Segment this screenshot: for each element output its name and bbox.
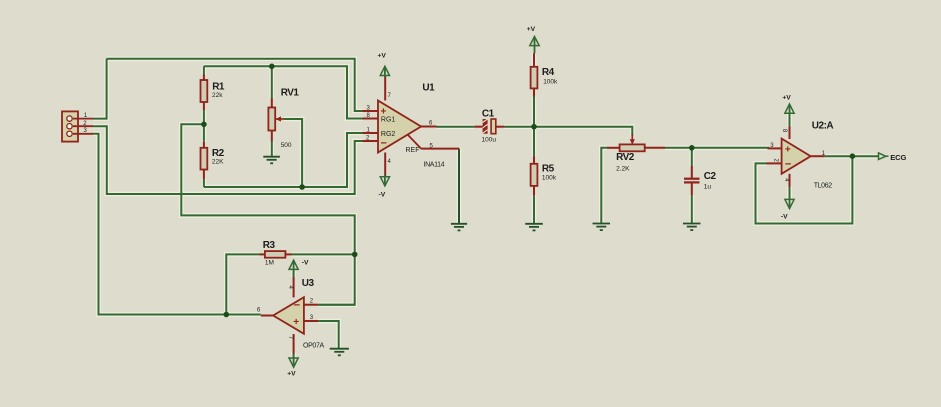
wire node A to left bbox=[181, 124, 354, 304]
svg-text:ECG: ECG bbox=[890, 153, 906, 162]
wire R2 top bbox=[203, 124, 205, 142]
wire R3 left to U3 output bbox=[226, 254, 259, 314]
wire R2 bottom bbox=[202, 179, 207, 188]
wire R3 right to U3 pin2 node bbox=[292, 252, 355, 257]
ground U3 pin3 bbox=[330, 349, 349, 356]
node A R1-R2 junction bbox=[201, 122, 207, 128]
wire RV1 wiper to bottom rail bbox=[284, 119, 302, 187]
resistor R4 bbox=[531, 67, 558, 97]
wire U3 pin7 to +V bbox=[293, 352, 295, 357]
terminal ECG bbox=[879, 153, 907, 162]
node RV2/C2 bbox=[689, 145, 695, 151]
resistor R2 bbox=[201, 142, 225, 179]
op-amp U2:A TL062 bbox=[767, 121, 834, 190]
svg-text:1u: 1u bbox=[704, 184, 712, 191]
wire connector pin3 to U3 output bbox=[93, 134, 261, 315]
power -V U1 bbox=[379, 175, 390, 199]
wire rail R1/RV1 to U1 pin8 bbox=[204, 66, 363, 118]
svg-text:OP07A: OP07A bbox=[303, 343, 324, 350]
power +V R4 bbox=[527, 26, 540, 54]
wire R4 top supply bbox=[533, 53, 535, 67]
wire connector pin2 to U1 pin2 bbox=[93, 126, 363, 194]
wire U1 output to C1 bbox=[437, 124, 475, 129]
power +V U2 bbox=[782, 95, 794, 116]
node R3/U3 pin2 bbox=[352, 252, 358, 258]
wire R4 top supply bbox=[532, 53, 537, 67]
potentiometer RV1 bbox=[268, 88, 299, 149]
wire R2 bottom bbox=[203, 179, 205, 188]
wire U2 pin8 to +V bbox=[789, 113, 791, 126]
svg-text:100u: 100u bbox=[482, 136, 497, 143]
wire RV1 bottom to ground bbox=[269, 141, 274, 157]
svg-text:RG2: RG2 bbox=[381, 131, 396, 138]
ground RV1 bbox=[263, 157, 280, 164]
svg-text:RV2: RV2 bbox=[616, 152, 635, 163]
power +V U3 (down arrow) bbox=[287, 354, 298, 378]
svg-text:100k: 100k bbox=[543, 79, 558, 86]
wire RV1 wiper to bottom rail bbox=[284, 119, 302, 187]
wire R2 top bbox=[202, 124, 207, 142]
ground R5 bbox=[525, 224, 543, 231]
wire REF to ground bbox=[458, 149, 460, 224]
svg-text:C2: C2 bbox=[704, 171, 717, 182]
wire R1 top bbox=[202, 66, 207, 74]
ground REF bbox=[451, 224, 467, 231]
wire U2 output to ECG bbox=[825, 154, 879, 159]
svg-text:-V: -V bbox=[302, 260, 309, 267]
node RV1 wiper / bottom rail bbox=[299, 184, 305, 190]
op-amp U1 INA114 bbox=[363, 76, 460, 177]
wire RV1 top bbox=[271, 66, 273, 98]
wire U2 pin4 to -V bbox=[787, 186, 792, 200]
svg-text:R4: R4 bbox=[542, 67, 555, 78]
resistor R5 bbox=[531, 156, 557, 195]
svg-text:R5: R5 bbox=[542, 163, 555, 174]
power -V U3 (up arrow) bbox=[289, 260, 309, 278]
wire top rail to U1 pin3 bbox=[107, 59, 363, 111]
wire R5 bottom to ground bbox=[533, 195, 535, 223]
wire R5 bottom to ground bbox=[532, 195, 537, 223]
svg-text:+: + bbox=[293, 317, 299, 328]
svg-text:RG1: RG1 bbox=[381, 117, 396, 124]
svg-text:U2:A: U2:A bbox=[812, 121, 834, 132]
wire RV1 top bbox=[269, 66, 274, 98]
svg-text:22K: 22K bbox=[212, 159, 224, 166]
wire RV2 left to ground bbox=[601, 148, 607, 224]
wire connector pin3 to U3 output bbox=[93, 134, 261, 315]
wire RV2 right to U2 pin3 bbox=[665, 146, 769, 151]
wire R1 top bbox=[203, 66, 205, 74]
power -V U2 bbox=[781, 197, 794, 220]
wire RV1 bottom to ground bbox=[271, 141, 273, 157]
wire U3 pin2 from node bbox=[318, 304, 355, 306]
svg-text:+V: +V bbox=[782, 95, 791, 102]
node C1/R4/R5 bbox=[531, 124, 537, 130]
wire connector pin1 to top rail bbox=[93, 59, 107, 119]
wire C2 top bbox=[691, 148, 693, 166]
ground RV2 bbox=[593, 224, 611, 231]
wire U3 pin2 from node bbox=[318, 302, 355, 307]
wire U2 output to ECG bbox=[825, 155, 879, 157]
ground C2 bbox=[683, 224, 701, 231]
svg-text:R3: R3 bbox=[263, 240, 276, 251]
wire R1 bottom to node A bbox=[202, 110, 207, 124]
wire C1 to RV2 wiper bbox=[504, 127, 632, 136]
svg-text:R1: R1 bbox=[212, 82, 225, 93]
resistor R1 bbox=[201, 75, 225, 111]
wire C1 to RV2 wiper bbox=[504, 127, 632, 136]
svg-text:+: + bbox=[785, 145, 791, 156]
svg-text:−: − bbox=[785, 158, 791, 170]
wire connector pin1 to top rail bbox=[93, 59, 107, 119]
potentiometer RV2 bbox=[607, 134, 665, 172]
wire bottom rail to U1 pin1 bbox=[204, 133, 363, 187]
wire U3 pin3 to ground bbox=[318, 321, 339, 349]
wire R3 right to U3 pin2 node bbox=[292, 253, 355, 255]
wire REF to ground bbox=[457, 149, 462, 224]
capacitor C2 bbox=[684, 166, 717, 195]
wire U3 pin3 to ground bbox=[318, 321, 339, 349]
wire U1 output to C1 bbox=[437, 126, 475, 128]
wire R3 left to U3 output bbox=[226, 254, 259, 314]
svg-text:TL062: TL062 bbox=[814, 182, 833, 189]
svg-text:RV1: RV1 bbox=[281, 88, 300, 99]
wire RV2 left to ground bbox=[601, 148, 607, 224]
svg-text:−: − bbox=[381, 138, 387, 150]
wire rail R1/RV1 to U1 pin8 bbox=[204, 66, 363, 118]
wire R1 bottom to node A bbox=[203, 110, 205, 124]
capacitor C1 bbox=[474, 109, 504, 144]
wire R5 top bbox=[533, 127, 535, 157]
svg-text:−: − bbox=[294, 300, 300, 312]
svg-text:-V: -V bbox=[781, 214, 788, 221]
resistor R3 bbox=[260, 240, 292, 266]
wire connector pin2 to U1 pin2 bbox=[93, 126, 363, 194]
wire R4 bottom bbox=[533, 97, 535, 127]
wire U2 feedback loop bbox=[756, 156, 853, 223]
svg-text:500: 500 bbox=[281, 142, 292, 149]
svg-text:2.2K: 2.2K bbox=[616, 165, 630, 172]
node U2 output/feedback bbox=[850, 153, 856, 159]
op-amp U3 OP07A bbox=[257, 277, 324, 354]
wire U3 pin4 to -V bbox=[293, 271, 295, 277]
wire R5 top bbox=[532, 127, 537, 157]
wire U2 pin8 to +V bbox=[787, 113, 792, 126]
node RV1 top junction bbox=[269, 64, 275, 70]
svg-text:100k: 100k bbox=[542, 174, 557, 181]
wire U2 feedback loop bbox=[756, 156, 853, 223]
wire top rail to U1 pin3 bbox=[107, 59, 363, 111]
svg-text:1M: 1M bbox=[265, 260, 274, 267]
svg-text:C1: C1 bbox=[482, 109, 495, 120]
wire U3 pin7 to +V bbox=[291, 352, 296, 357]
wire R4 bottom bbox=[532, 97, 537, 127]
svg-text:U3: U3 bbox=[302, 278, 315, 289]
connector J1 bbox=[62, 111, 93, 141]
power +V U1 bbox=[378, 53, 390, 78]
wire C2 bottom to ground bbox=[691, 195, 693, 224]
wire bottom rail to U1 pin1 bbox=[204, 133, 363, 187]
svg-text:U1: U1 bbox=[422, 83, 435, 94]
svg-text:22k: 22k bbox=[212, 92, 223, 99]
wire RV2 right to U2 pin3 bbox=[665, 147, 769, 149]
svg-text:+V: +V bbox=[287, 371, 296, 378]
wire U3 pin4 to -V bbox=[291, 271, 296, 277]
wire C2 bottom to ground bbox=[689, 195, 694, 224]
wire U2 pin4 to -V bbox=[789, 186, 791, 200]
wire node A to left bbox=[181, 124, 354, 304]
svg-text:-V: -V bbox=[379, 192, 386, 199]
wire C2 top bbox=[689, 148, 694, 166]
svg-text:+V: +V bbox=[378, 53, 387, 60]
svg-text:REF: REF bbox=[406, 147, 420, 154]
svg-text:+V: +V bbox=[527, 26, 536, 33]
node R3/U3 output bbox=[224, 312, 230, 318]
svg-text:R2: R2 bbox=[212, 148, 225, 159]
svg-text:INA114: INA114 bbox=[424, 162, 445, 169]
